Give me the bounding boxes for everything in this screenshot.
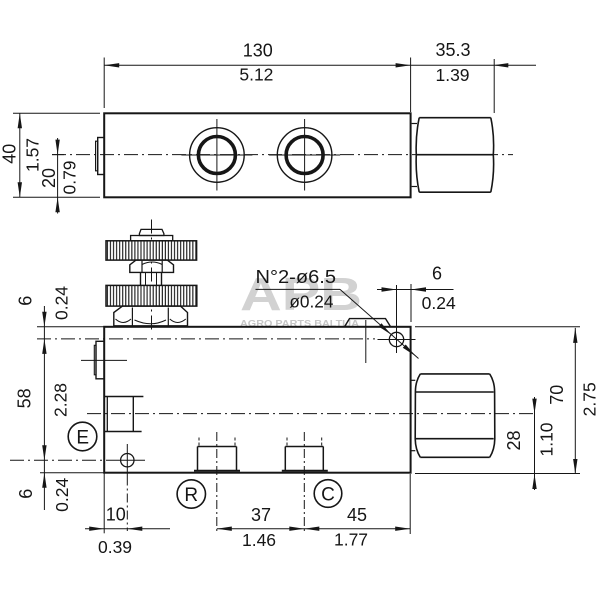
svg-text:0.39: 0.39 xyxy=(98,537,132,557)
svg-text:70: 70 xyxy=(547,385,567,405)
svg-text:45: 45 xyxy=(347,505,367,525)
svg-text:28: 28 xyxy=(504,430,524,450)
svg-text:1.46: 1.46 xyxy=(242,530,276,550)
svg-text:6: 6 xyxy=(16,296,36,306)
svg-text:1.57: 1.57 xyxy=(22,138,42,172)
svg-text:E: E xyxy=(76,427,89,448)
svg-text:5.12: 5.12 xyxy=(239,65,273,85)
svg-text:N°2-ø6.5: N°2-ø6.5 xyxy=(256,267,337,287)
svg-text:10: 10 xyxy=(106,505,126,525)
svg-text:R: R xyxy=(184,485,198,506)
svg-text:6: 6 xyxy=(16,489,36,499)
svg-text:1.10: 1.10 xyxy=(537,422,557,456)
svg-text:0.24: 0.24 xyxy=(52,286,72,320)
svg-text:2.75: 2.75 xyxy=(579,382,599,416)
svg-text:0.24: 0.24 xyxy=(422,293,456,313)
svg-text:1.77: 1.77 xyxy=(334,530,368,550)
svg-text:58: 58 xyxy=(15,388,35,408)
svg-text:37: 37 xyxy=(251,505,271,525)
svg-text:ø0.24: ø0.24 xyxy=(289,292,333,312)
svg-text:2.28: 2.28 xyxy=(51,383,71,417)
svg-text:20: 20 xyxy=(39,168,59,188)
svg-text:35.3: 35.3 xyxy=(435,40,470,60)
svg-text:0.24: 0.24 xyxy=(52,478,72,512)
svg-text:40: 40 xyxy=(0,144,19,164)
svg-text:0.79: 0.79 xyxy=(59,160,79,194)
svg-text:1.39: 1.39 xyxy=(435,65,469,85)
svg-text:6: 6 xyxy=(432,264,442,284)
svg-text:C: C xyxy=(321,484,335,505)
svg-text:130: 130 xyxy=(243,41,273,61)
